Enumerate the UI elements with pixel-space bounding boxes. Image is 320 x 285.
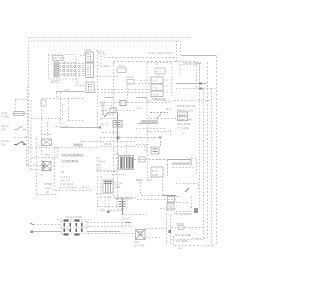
- svg-text:CAP: CAP: [152, 173, 158, 177]
- node junction x170: [169, 230, 172, 233]
- wire y97 segments: [104, 97, 147, 99]
- wire fuse to border: [15, 86, 28, 132]
- wire relay outputs: [163, 80, 172, 92]
- connector CN-B1: [86, 52, 94, 62]
- node arrow feed1: [30, 223, 34, 225]
- connector CN-B3: [86, 82, 94, 93]
- wire vertical x60: [57, 92, 61, 124]
- wire y77: [96, 76, 118, 78]
- TB1 pin 4: [81, 223, 83, 226]
- wire y208: [160, 208, 176, 210]
- wire y170 right: [172, 167, 196, 169]
- wire y146: [100, 146, 147, 148]
- svg-text:CONTROL: CONTROL: [62, 160, 80, 164]
- thermal cutout switch diagonal: [97, 205, 117, 210]
- TB1 pin 3: [76, 223, 78, 226]
- wire vertical x41: [41, 99, 43, 176]
- svg-text:LAMP 25W: LAMP 25W: [177, 118, 192, 122]
- wire y123 solid: [138, 123, 158, 125]
- connector CN-C label box: [117, 68, 126, 73]
- wire vertical x68: [68, 99, 84, 121]
- TB1 pin 1: [64, 223, 66, 226]
- wire vertical x31: [30, 100, 32, 170]
- wire y91 solid TB: [56, 91, 84, 93]
- wire right border inner: [192, 62, 208, 239]
- wire vertical x200: [195, 63, 200, 211]
- svg-text:H.V. DIODE: H.V. DIODE: [175, 233, 191, 237]
- terminal box mid: [120, 101, 126, 106]
- control board inner edge: [97, 150, 118, 196]
- node dark x118 y137: [117, 136, 120, 139]
- wire vertical x47: [47, 122, 49, 136]
- wire vertical x212: [211, 89, 213, 246]
- H.V. transformer T1: [119, 156, 134, 170]
- wire y214: [122, 214, 147, 216]
- wire horizontal y57: [104, 57, 176, 59]
- wire vertical x170: [170, 215, 172, 245]
- wire y174: [112, 174, 126, 176]
- wire y177: [147, 177, 157, 179]
- svg-text:18 GA WIRE: 18 GA WIRE: [66, 215, 82, 219]
- CN-B1 pins: [55, 54, 91, 92]
- svg-text:N.O.: N.O.: [153, 79, 159, 83]
- relay K4 box: [151, 147, 159, 154]
- wire vertical x113: [113, 62, 115, 196]
- svg-text:N: N: [98, 51, 100, 55]
- relay contact block K2: [151, 84, 163, 91]
- wire vertical x117 mid: [117, 141, 119, 155]
- TB1 top bar 2: [75, 219, 80, 221]
- wire y144: [136, 144, 147, 146]
- magnetron filament box: [117, 199, 127, 209]
- wire vertical x122 solid: [122, 198, 124, 214]
- wire y119: [100, 118, 117, 120]
- wire y100: [147, 100, 212, 102]
- wire y233 right run: [88, 233, 136, 235]
- svg-text:MAG: MAG: [136, 178, 144, 182]
- wire y227 right: [171, 227, 204, 229]
- wire x174 to bottom border: [173, 236, 175, 245]
- wire y195 solid segment: [162, 195, 176, 197]
- wire vertical x177: [176, 41, 178, 62]
- wire vertical x62: [62, 104, 64, 116]
- node blob: [194, 208, 198, 213]
- svg-text:BLK 120V: BLK 120V: [101, 104, 105, 116]
- wire heater feed solid: [168, 160, 191, 166]
- wire vertical x147: [147, 120, 149, 176]
- svg-text:PWB 1: PWB 1: [74, 143, 83, 147]
- svg-text:MICROWAVE: MICROWAVE: [62, 154, 85, 158]
- wire dashed box around relays: [147, 63, 172, 121]
- wire y105: [100, 105, 113, 107]
- node end of y127 line: [99, 126, 101, 128]
- wire left feed solid: [33, 231, 61, 233]
- svg-text:L1: L1: [155, 62, 159, 66]
- svg-text:CN-C: CN-C: [118, 64, 125, 68]
- wire vertical x109 bottom: [108, 196, 110, 211]
- CN-A pin marks: [54, 64, 56, 77]
- connector CN-D box: [127, 80, 134, 85]
- connector CN-A label box: [53, 56, 64, 61]
- noise filter dashed box: [180, 65, 200, 85]
- wire right border outer: [216, 56, 218, 246]
- svg-text:SEE NOTE 3: SEE NOTE 3: [141, 120, 158, 124]
- svg-text:13 14 15 16 17: 13 14 15 16 17: [59, 186, 78, 190]
- wire y231 right solid: [87, 231, 120, 233]
- svg-text:K4: K4: [144, 148, 148, 152]
- svg-text:MOTOR: MOTOR: [134, 244, 144, 248]
- wire y147: [28, 147, 57, 149]
- wire y93: [94, 92, 151, 94]
- svg-text:SEC: SEC: [96, 167, 102, 171]
- connector CN-A pin strip: [54, 62, 59, 77]
- wire vertical x204: [203, 89, 205, 240]
- wire y228 fan: [145, 228, 167, 230]
- svg-text:TO CHASSIS: TO CHASSIS: [174, 212, 192, 216]
- svg-text:SW: SW: [1, 143, 6, 147]
- door monitor switch assembly hatched box: [103, 180, 113, 193]
- terminal box mid2: [110, 108, 116, 113]
- svg-text:NOISE FILTER: NOISE FILTER: [183, 61, 202, 65]
- wire y108 stub: [137, 108, 143, 110]
- wire y183 right: [176, 184, 199, 192]
- wire below CN-A: [52, 79, 84, 86]
- wire y159 strong: [134, 160, 168, 177]
- svg-text:CN: CN: [104, 64, 108, 68]
- junction box on wire: [139, 157, 145, 162]
- small box left x41: [41, 100, 46, 106]
- node junction y84: [199, 83, 202, 85]
- wire left feed dashed: [33, 224, 61, 226]
- wire vertical x97 bottom: [97, 176, 99, 206]
- wire y226 right: [87, 226, 132, 228]
- wire y219: [57, 219, 92, 221]
- TB1 bottom bar 1: [64, 233, 69, 235]
- node junction y137: [159, 137, 161, 139]
- line fuse symbol: [12, 112, 26, 116]
- wire y199: [137, 199, 176, 201]
- svg-text:MONITOR SW: MONITOR SW: [177, 104, 196, 108]
- heater element zigzag: [172, 163, 190, 165]
- small box above fan: [122, 218, 130, 225]
- wire y126 left: [55, 126, 68, 128]
- microwave control board dashed box: [55, 148, 98, 191]
- turntable motor M1: [42, 135, 52, 146]
- svg-text:TO GND: TO GND: [176, 239, 188, 243]
- transformer dark windings: [121, 157, 134, 169]
- svg-text:TB-1: TB-1: [64, 88, 71, 92]
- wire y165: [26, 165, 42, 167]
- label harness wire colors: [62, 63, 80, 75]
- wire vertical x181: [180, 41, 182, 55]
- fan motor box: [136, 230, 146, 240]
- interlock monitor box: [167, 203, 174, 210]
- wire vertical x166: [166, 206, 168, 246]
- wire y193: [96, 193, 113, 195]
- wire y131: [147, 130, 171, 136]
- svg-text:RLY 2: RLY 2: [101, 123, 109, 127]
- wire y237 fan: [145, 237, 160, 239]
- svg-text:CN-D: CN-D: [126, 75, 133, 79]
- wire vertical x97 top: [96, 51, 107, 128]
- svg-text:ASM: ASM: [114, 185, 121, 189]
- svg-text:TTM: TTM: [44, 153, 50, 157]
- svg-text:4b: 4b: [46, 190, 50, 194]
- terminal board TB1 outline: [61, 222, 87, 234]
- wire left border: [28, 37, 30, 170]
- wire y239 right: [170, 239, 204, 241]
- wire horizontal y61: [113, 61, 196, 63]
- relay contact block K1: [151, 77, 163, 84]
- svg-text:FAN MTR: FAN MTR: [177, 122, 191, 126]
- wire vertical x101: [101, 52, 110, 67]
- TB1 bottom bar 2: [75, 233, 80, 235]
- wire y127 solid: [60, 127, 98, 129]
- wire y118 left: [31, 118, 63, 120]
- wire y202 right: [176, 202, 190, 204]
- svg-text:CN-F 2: CN-F 2: [80, 186, 89, 190]
- svg-text:CN-A1: CN-A1: [50, 80, 59, 84]
- wire y210: [100, 210, 122, 212]
- svg-text:TRIAC Q1: TRIAC Q1: [152, 97, 166, 101]
- wire bottom border right: [174, 245, 216, 247]
- wire vertical x117 solid: [117, 112, 119, 141]
- H.V. capacitor C1: [151, 167, 163, 177]
- svg-text:N.C.: N.C.: [166, 107, 172, 111]
- svg-text:12V: 12V: [84, 52, 89, 56]
- node dot feed2: [31, 231, 34, 234]
- svg-text:SW: SW: [1, 128, 6, 132]
- wire y211 right: [176, 211, 196, 213]
- TB1 top bar 1: [64, 219, 69, 221]
- wire y141: [82, 141, 135, 143]
- wire vertical x126: [126, 141, 128, 155]
- wire y84 from CN-D: [128, 84, 152, 105]
- CN-B3 pins: [87, 84, 89, 92]
- wire top border inner: [30, 40, 181, 42]
- wire harness A to B: [59, 64, 86, 76]
- wire top border outer: [30, 37, 192, 39]
- wire vertical x196: [196, 62, 198, 89]
- svg-text:XFMR: XFMR: [104, 142, 112, 146]
- wire y170: [96, 170, 118, 172]
- wire y89: [94, 89, 151, 91]
- magnetron dashed box: [141, 176, 163, 196]
- TB1 pin 2: [70, 223, 72, 226]
- terminal board TB1 dark bars and pins: [55, 54, 133, 236]
- svg-text:COM: COM: [153, 93, 160, 97]
- wire y89 right: [176, 88, 216, 90]
- wire y132: [102, 132, 117, 134]
- wire y137 mid: [100, 137, 136, 139]
- wire y196 right: [176, 196, 192, 208]
- relay contact block K3: [151, 91, 163, 97]
- connector CN-A dashed enclosure: [49, 55, 77, 80]
- svg-text:H.V.: H.V.: [147, 178, 153, 182]
- wire y169: [27, 136, 45, 170]
- wire vertical x36: [37, 138, 59, 195]
- thermostat box: [168, 197, 175, 203]
- node arrow left: [22, 142, 25, 144]
- node dot: [107, 211, 110, 214]
- wire switch rows: [14, 137, 32, 139]
- svg-text:MAGNETRON: MAGNETRON: [115, 197, 133, 201]
- wire relay input stub: [140, 80, 151, 82]
- svg-text:LINE 1 SEE NOTE 2: LINE 1 SEE NOTE 2: [148, 51, 174, 55]
- switch blade diagonal: [156, 114, 161, 119]
- wire y128: [136, 128, 165, 130]
- door sense switch blade: [104, 113, 109, 118]
- svg-text:KEY PNL: KEY PNL: [53, 56, 65, 60]
- node junction y89: [199, 88, 203, 90]
- svg-text:IN: IN: [61, 170, 64, 174]
- svg-text:N.O.: N.O.: [153, 86, 159, 90]
- wire stub to CN-B1: [80, 55, 86, 57]
- wire y83 solid: [176, 83, 207, 85]
- wire y102: [104, 102, 172, 104]
- fan motor M2: [43, 162, 52, 171]
- connector CN-B2: [86, 63, 94, 78]
- wire stub x158: [158, 74, 160, 77]
- wire y157: [31, 147, 58, 158]
- wire y222 right: [87, 222, 126, 224]
- wire end dark dash: [126, 222, 131, 224]
- wire y137 strong: [136, 137, 161, 146]
- door switch blade: [14, 141, 26, 145]
- svg-text:FUSE: FUSE: [1, 115, 9, 119]
- relay box mid: [113, 121, 122, 128]
- wire vertical x101 bottom: [100, 176, 102, 198]
- CN-B2 pins: [87, 65, 89, 77]
- wire y197: [100, 197, 136, 199]
- wire y110: [116, 110, 136, 112]
- power relay box U2: [155, 68, 165, 74]
- wire y114: [102, 114, 113, 116]
- svg-text:RLY: RLY: [156, 70, 161, 74]
- wire y98 long: [42, 98, 84, 100]
- arrow mark: [185, 188, 189, 192]
- wire line to right edge: [181, 55, 217, 57]
- wire vertical x105 bottom: [104, 196, 106, 207]
- svg-text:-E: -E: [115, 156, 118, 160]
- interlock switch symbol: [14, 126, 26, 130]
- wire y118 right: [147, 118, 177, 120]
- wire y158: [191, 159, 197, 177]
- wire y112: [150, 112, 168, 114]
- text labels group: [1, 48, 202, 250]
